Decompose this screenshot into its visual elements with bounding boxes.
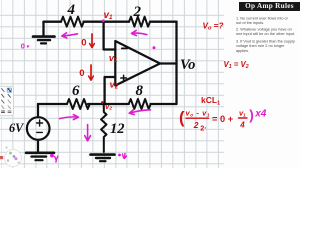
wire: R2 to feedback corner [150,21,177,23]
op-amp U1 triangle [115,41,160,86]
resistor R6 [67,99,90,109]
source minus sign [37,131,43,133]
ground (under source) [26,153,54,160]
wire: R4 to node v1 to R2 [84,21,130,23]
ground (top-left) [33,22,55,43]
svg-text:6V: 6V [9,121,24,135]
svg-text:v1: v1 [239,109,246,118]
svg-text:): ) [249,107,254,122]
source plus sign [37,120,43,126]
resistor R4 [61,17,84,27]
annotation: pink left arrow under R2 [131,30,147,35]
wire: op-amp output to Vo node [160,62,177,64]
svg-text:vo - v1: vo - v1 [186,109,211,118]
svg-text:V1 = V2: V1 = V2 [224,60,249,70]
card header: Op Amp Rules [239,2,300,11]
annotation: red fraction (vo - v1)/2 [186,109,211,130]
svg-text:6: 6 [72,83,80,99]
annotation: pink down arrow left of R12 [85,125,91,141]
svg-text:kCL1: kCL1 [201,95,220,106]
voltage source V1 6V [27,104,50,152]
rule 1 text [236,17,300,26]
annotation: red 0 with down arrow (lower) [79,65,93,80]
svg-text:(: ( [179,109,185,127]
svg-text:Vo: Vo [180,57,195,73]
color picker wheel (bottom-left) [0,146,22,166]
svg-text:v1: v1 [109,53,118,64]
svg-text:= 0 +: = 0 + [212,114,234,124]
wire: node v1 down to inverting input [104,22,116,50]
resistor R12 vertical [101,104,106,152]
svg-text:12: 12 [110,121,125,137]
op amp rules card [224,0,300,168]
wire: source top to R6 [38,103,67,105]
annotation: pink right arrow above source [60,115,79,120]
op-amp minus sign [122,47,127,49]
ground (under R12) [91,155,115,162]
svg-text:4: 4 [239,121,245,130]
svg-text:v1: v1 [104,10,113,21]
resistor R2 [129,17,150,27]
wire: top ground to R4 [44,21,62,23]
svg-text:0: 0 [79,68,84,79]
annotation: magenta mark near source ground [50,154,58,162]
annotation: pink dot right of op-amp top edge [153,46,156,49]
annotation: pink left arrow under R8 [129,109,150,114]
svg-text:0: 0 [81,37,86,48]
svg-text:2: 2 [193,120,199,130]
annotation: pink dot on node v1 [102,19,105,22]
annotation: red fraction v1/4 [239,109,248,130]
op-amp plus sign [121,75,127,81]
wire: R8 to feedback corner [151,103,177,105]
svg-text:0: 0 [21,41,25,50]
svg-text:8: 8 [136,83,144,99]
svg-text:2: 2 [133,4,142,20]
svg-text:4: 4 [67,2,76,18]
node v2 junction dot [102,102,106,106]
tool palette (left edge) [0,86,14,116]
wire: non-inverting input down to node v2 [105,77,116,104]
resistor R8 [129,99,151,109]
wire: feedback vertical to output and down to R8 [175,22,177,104]
grid background [0,0,228,168]
rule 2 text [236,28,300,37]
svg-text:v2: v2 [110,79,119,90]
svg-text:Vo =?: Vo =? [203,21,224,31]
annotation: red 0 with down arrow (upper) [81,34,94,48]
annotation: pink left arrow under R4 [62,33,78,38]
annotation: magenta mark near R12 ground [118,154,126,159]
wire: R6 to node v2 to R8 [88,103,129,105]
rule 3 text [236,40,300,53]
svg-text:2·: 2· [200,124,206,133]
svg-text:x4: x4 [254,109,267,120]
